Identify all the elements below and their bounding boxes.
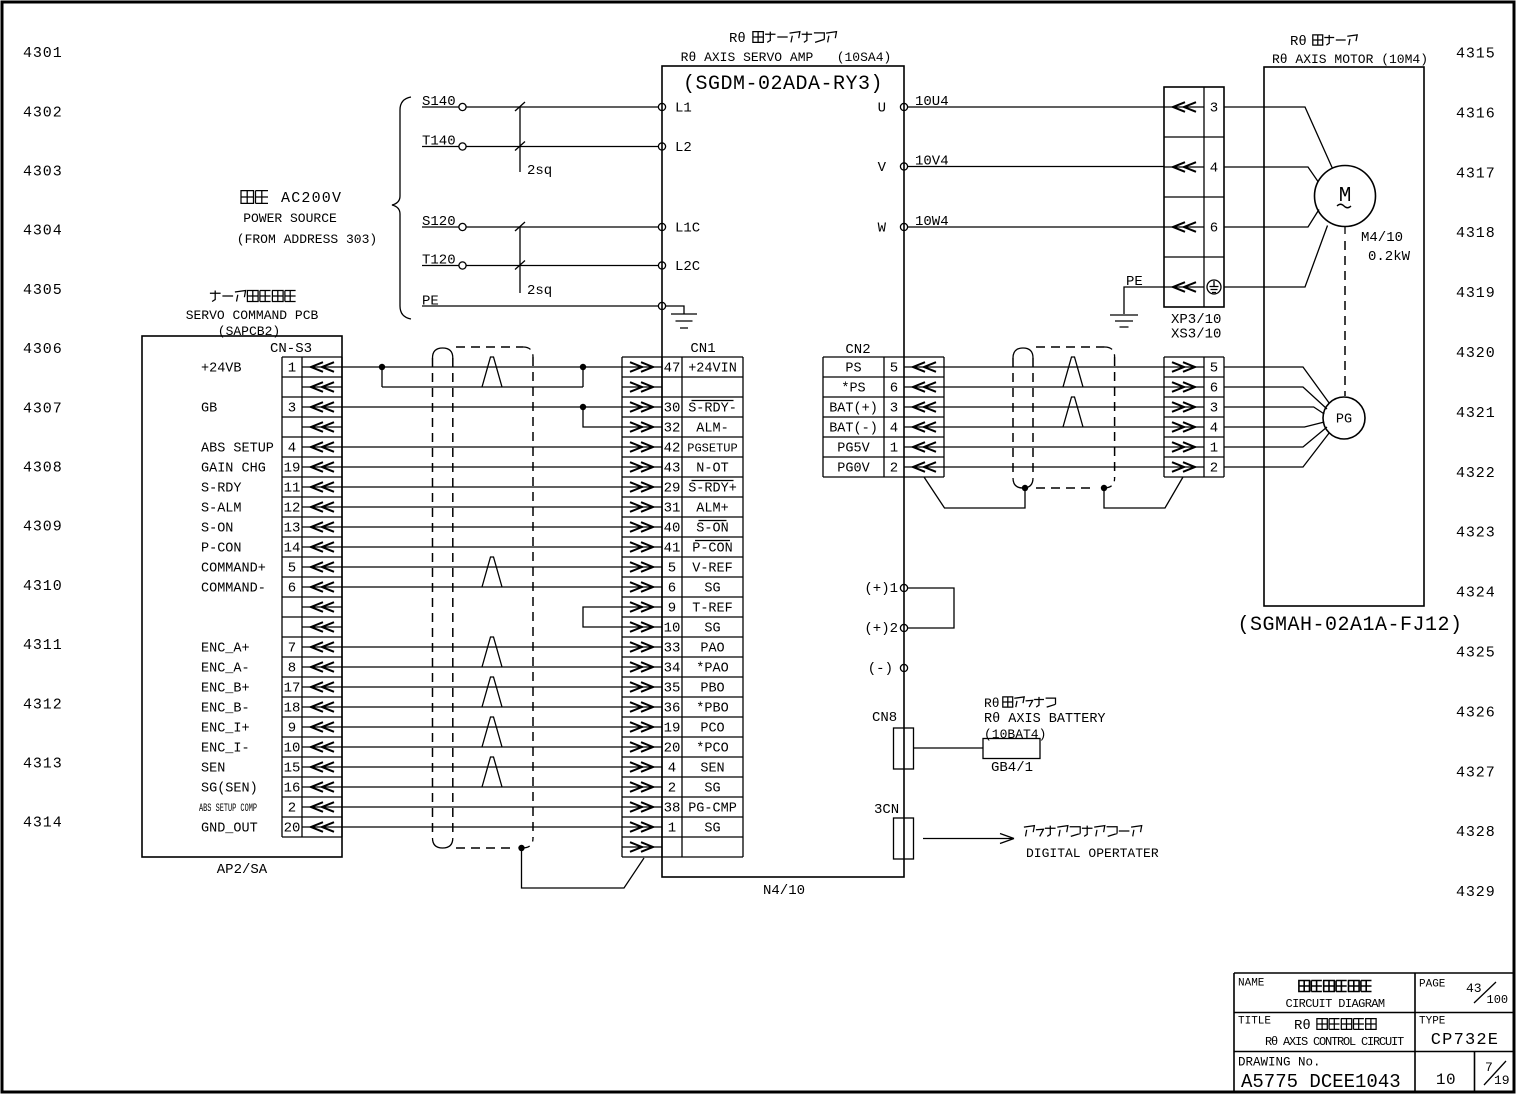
svg-text:DRAWING No.: DRAWING No. [1238, 1056, 1321, 1070]
svg-text:PAGE: PAGE [1419, 979, 1446, 991]
twisted pair symbols [482, 557, 502, 587]
svg-text:2: 2 [890, 461, 898, 477]
svg-text:6: 6 [288, 581, 296, 597]
terminal L1 [658, 103, 665, 110]
svg-text:Rθ: Rθ [1294, 1018, 1311, 1034]
svg-text:ENC_I+: ENC_I+ [201, 722, 250, 737]
svg-text:GAIN CHG: GAIN CHG [201, 462, 266, 477]
svg-text:13: 13 [284, 521, 301, 537]
svg-text:DIGITAL OPERTATER: DIGITAL OPERTATER [1026, 846, 1159, 861]
svg-text:T-REF: T-REF [692, 602, 733, 617]
svg-text:5: 5 [1210, 361, 1218, 377]
svg-text:PGSETUP: PGSETUP [687, 442, 737, 456]
power source label [241, 191, 268, 204]
svg-text:L1C: L1C [675, 221, 700, 237]
svg-text:6: 6 [668, 581, 676, 597]
svg-text:ENC_B-: ENC_B- [201, 702, 250, 717]
svg-text:P-CON: P-CON [692, 542, 733, 557]
svg-text:4315: 4315 [1456, 46, 1496, 63]
svg-text:29: 29 [664, 481, 681, 497]
svg-text:(+)1: (+)1 [864, 581, 898, 597]
svg-text:4304: 4304 [23, 223, 63, 240]
svg-text:43: 43 [664, 461, 681, 477]
svg-text:4316: 4316 [1456, 105, 1496, 122]
svg-text:ALM+: ALM+ [696, 502, 728, 517]
svg-text:ALM-: ALM- [696, 422, 728, 437]
svg-text:4302: 4302 [23, 104, 63, 121]
svg-text:AP2/SA: AP2/SA [217, 862, 268, 878]
svg-text:3: 3 [288, 401, 296, 417]
ground symbol PE [1110, 315, 1138, 327]
svg-text:XS3/10: XS3/10 [1171, 327, 1221, 343]
connector XP3/10 XS3/10 [1164, 87, 1224, 343]
svg-text:Rθ AXIS BATTERY: Rθ AXIS BATTERY [984, 712, 1106, 727]
cable size marks 2sq lower [515, 222, 525, 293]
terminal L2C [658, 262, 665, 269]
svg-text:4306: 4306 [23, 341, 63, 358]
svg-text:4322: 4322 [1456, 465, 1496, 482]
encoder wires CN2-XS3 [944, 366, 1164, 368]
svg-text:CN8: CN8 [872, 710, 897, 726]
svg-text:NAME: NAME [1238, 978, 1265, 990]
shield junction dots [1022, 485, 1028, 491]
svg-text:32: 32 [664, 421, 681, 437]
shield drain junction [518, 845, 524, 851]
svg-text:SEN: SEN [700, 762, 724, 777]
svg-text:35: 35 [664, 681, 681, 697]
svg-text:8: 8 [288, 661, 296, 677]
svg-text:4: 4 [890, 421, 898, 437]
svg-text:2sq: 2sq [527, 163, 552, 179]
svg-text:COMMAND+: COMMAND+ [201, 562, 266, 577]
svg-text:4307: 4307 [23, 400, 63, 417]
svg-text:38: 38 [664, 801, 681, 817]
svg-text:3: 3 [1210, 401, 1218, 417]
svg-text:42: 42 [664, 441, 681, 457]
svg-text:16: 16 [284, 781, 301, 797]
svg-text:AC200V: AC200V [281, 190, 342, 207]
svg-text:4: 4 [1210, 421, 1218, 437]
svg-text:4: 4 [668, 761, 676, 777]
svg-text:6: 6 [890, 381, 898, 397]
svg-text:33: 33 [664, 641, 681, 657]
svg-text:4329: 4329 [1456, 884, 1496, 901]
svg-text:ENC_I-: ENC_I- [201, 742, 250, 757]
svg-text:4313: 4313 [23, 756, 63, 773]
svg-text:1: 1 [288, 361, 296, 377]
svg-text:0.2kW: 0.2kW [1368, 249, 1411, 265]
svg-text:4309: 4309 [23, 519, 63, 536]
svg-text:20: 20 [284, 821, 301, 837]
svg-text:P-CON: P-CON [201, 542, 242, 557]
svg-text:19: 19 [664, 721, 681, 737]
svg-text:BAT(+): BAT(+) [829, 402, 878, 417]
svg-text:Rθ: Rθ [1290, 34, 1307, 50]
svg-text:36: 36 [664, 701, 681, 717]
svg-text:12: 12 [284, 501, 301, 517]
svg-text:SG: SG [704, 822, 720, 837]
terminal PE [658, 302, 665, 309]
svg-text:19: 19 [1494, 1073, 1510, 1088]
svg-text:4327: 4327 [1456, 764, 1496, 781]
svg-text:4301: 4301 [23, 45, 63, 62]
power source brace [392, 97, 411, 319]
svg-text:10: 10 [1436, 1071, 1456, 1089]
svg-text:34: 34 [664, 661, 681, 677]
svg-text:PAO: PAO [700, 642, 724, 657]
svg-text:7: 7 [1485, 1060, 1493, 1075]
svg-text:M4/10: M4/10 [1361, 230, 1403, 246]
svg-text:ENC_B+: ENC_B+ [201, 682, 250, 697]
svg-text:9: 9 [668, 601, 676, 617]
svg-text:PCO: PCO [700, 722, 724, 737]
svg-text:PG: PG [1336, 413, 1352, 428]
svg-text:10: 10 [664, 621, 681, 637]
svg-text:*PAO: *PAO [696, 662, 728, 677]
svg-text:17: 17 [284, 681, 301, 697]
svg-text:*PBO: *PBO [696, 702, 728, 717]
PG circle [1323, 397, 1365, 439]
svg-text:6: 6 [1210, 381, 1218, 397]
svg-text:L2C: L2C [675, 259, 700, 275]
connector XS3 encoder side [1164, 357, 1224, 477]
terminal L2 [658, 143, 665, 150]
svg-text:N-OT: N-OT [696, 462, 728, 477]
svg-text:SG: SG [704, 622, 720, 637]
svg-text:*PS: *PS [841, 382, 865, 397]
svg-text:COMMAND-: COMMAND- [201, 582, 266, 597]
svg-text:5: 5 [890, 361, 898, 377]
svg-text:4317: 4317 [1456, 165, 1496, 182]
svg-text:S-RDY+: S-RDY+ [688, 482, 737, 497]
svg-text:TITLE: TITLE [1238, 1016, 1271, 1028]
cable shield CN-S3/CN1 dashed [433, 358, 453, 838]
svg-text:4303: 4303 [23, 164, 63, 181]
svg-text:L2: L2 [675, 140, 692, 156]
motor M circle [1315, 166, 1376, 227]
svg-text:30: 30 [664, 401, 681, 417]
svg-text:1: 1 [1210, 441, 1218, 457]
shield wires to shells [924, 477, 1183, 508]
dashed shaft line [1344, 227, 1346, 234]
svg-text:L1: L1 [675, 101, 692, 117]
right margin line numbers 4315-4329 [1456, 46, 1496, 902]
jumper (+)1-(+)2 [908, 588, 955, 628]
svg-text:4314: 4314 [23, 815, 63, 832]
svg-text:Rθ AXIS MOTOR (10M4): Rθ AXIS MOTOR (10M4) [1272, 52, 1428, 67]
svg-text:43: 43 [1466, 981, 1482, 996]
svg-text:PG-CMP: PG-CMP [688, 802, 737, 817]
wires XS3 to PG [1224, 367, 1330, 404]
svg-text:4328: 4328 [1456, 824, 1496, 841]
svg-text:4325: 4325 [1456, 645, 1496, 662]
svg-text:19: 19 [284, 461, 301, 477]
svg-text:+24VIN: +24VIN [688, 362, 737, 377]
svg-text:Rθ: Rθ [984, 696, 1000, 711]
svg-text:Rθ: Rθ [729, 31, 746, 47]
svg-text:(-): (-) [868, 661, 893, 677]
svg-text:2: 2 [668, 781, 676, 797]
left margin line numbers 4301-4314 [23, 45, 63, 832]
svg-text:4319: 4319 [1456, 285, 1496, 302]
cable size marks 2sq upper [515, 102, 525, 172]
svg-text:GB4/1: GB4/1 [991, 760, 1033, 776]
svg-text:PE: PE [422, 294, 439, 310]
svg-text:4311: 4311 [23, 637, 63, 654]
terminal L1C [658, 223, 665, 230]
svg-text:BAT(-): BAT(-) [829, 422, 878, 437]
svg-text:4324: 4324 [1456, 585, 1496, 602]
svg-text:*PCO: *PCO [696, 742, 728, 757]
svg-text:S-RDY-: S-RDY- [688, 402, 737, 417]
svg-text:SG(SEN): SG(SEN) [201, 782, 258, 797]
svg-text:PG0V: PG0V [837, 462, 870, 477]
PE pin symbol [1207, 280, 1221, 294]
svg-text:9: 9 [288, 721, 296, 737]
svg-text:V: V [878, 160, 887, 176]
svg-text:S-ON: S-ON [696, 522, 728, 537]
svg-text:1: 1 [890, 441, 898, 457]
svg-text:4320: 4320 [1456, 345, 1496, 362]
svg-text:S-RDY: S-RDY [201, 482, 242, 497]
svg-text:PS: PS [845, 362, 861, 377]
svg-text:Rθ AXIS CONTROL CIRCUIT: Rθ AXIS CONTROL CIRCUIT [1265, 1035, 1404, 1049]
svg-text:S-ALM: S-ALM [201, 502, 242, 517]
svg-text:4326: 4326 [1456, 704, 1496, 721]
svg-text:4308: 4308 [23, 460, 63, 477]
svg-text:11: 11 [284, 481, 301, 497]
svg-text:4323: 4323 [1456, 525, 1496, 542]
connector CN-S3 pin rows [199, 357, 342, 837]
svg-text:4310: 4310 [23, 578, 63, 595]
servo command PCB SAPCB2 [210, 291, 296, 302]
svg-text:(10BAT4): (10BAT4) [984, 727, 1046, 742]
arrow to digital operator [923, 834, 1014, 844]
svg-text:ABS SETUP COMP: ABS SETUP COMP [199, 803, 257, 815]
svg-text:SG: SG [704, 582, 720, 597]
svg-text:2: 2 [288, 801, 296, 817]
svg-text:14: 14 [284, 541, 301, 557]
svg-text:31: 31 [664, 501, 681, 517]
wire +24VB twisted pair loop [342, 367, 622, 387]
svg-text:20: 20 [664, 741, 681, 757]
svg-text:(SGMAH-02A1A-FJ12): (SGMAH-02A1A-FJ12) [1237, 614, 1462, 637]
svg-text:5: 5 [288, 561, 296, 577]
T-REF SG loop [583, 607, 622, 627]
ground inside amp [666, 306, 697, 328]
title block [1234, 973, 1514, 1093]
svg-text:4: 4 [1210, 161, 1218, 177]
svg-text:N4/10: N4/10 [763, 883, 805, 899]
svg-text:SEN: SEN [201, 762, 225, 777]
svg-text:4318: 4318 [1456, 225, 1496, 242]
svg-text:GND_OUT: GND_OUT [201, 822, 258, 837]
svg-text:5: 5 [668, 561, 676, 577]
svg-text:2: 2 [1210, 461, 1218, 477]
svg-text:(FROM ADDRESS 303): (FROM ADDRESS 303) [237, 232, 377, 247]
svg-text:3: 3 [890, 401, 898, 417]
svg-text:ENC_A-: ENC_A- [201, 662, 250, 677]
svg-text:18: 18 [284, 701, 301, 717]
svg-text:ENC_A+: ENC_A+ [201, 642, 250, 657]
svg-text:4305: 4305 [23, 282, 63, 299]
svg-text:CP732E: CP732E [1431, 1031, 1499, 1050]
svg-text:4312: 4312 [23, 696, 63, 713]
svg-text:3: 3 [1210, 101, 1218, 117]
svg-text:GB: GB [201, 402, 217, 417]
wire GB to S-RDY- and ALM- [342, 407, 622, 427]
svg-text:PG5V: PG5V [837, 442, 870, 457]
straight wires [342, 446, 622, 448]
svg-text:(SGDM-02ADA-RY3): (SGDM-02ADA-RY3) [683, 73, 883, 96]
svg-text:15: 15 [284, 761, 301, 777]
svg-text:POWER SOURCE: POWER SOURCE [243, 211, 337, 226]
svg-text:PBO: PBO [700, 682, 724, 697]
motor 10M4 box [1264, 67, 1424, 606]
svg-text:10: 10 [284, 741, 301, 757]
svg-text:100: 100 [1487, 993, 1509, 1007]
svg-text:CIRCUIT DIAGRAM: CIRCUIT DIAGRAM [1285, 997, 1384, 1011]
svg-text:CN2: CN2 [845, 342, 870, 358]
svg-text:4: 4 [288, 441, 296, 457]
svg-text:SERVO COMMAND PCB: SERVO COMMAND PCB [186, 308, 319, 323]
svg-text:4321: 4321 [1456, 405, 1496, 422]
svg-text:Rθ AXIS SERVO AMP (10SA4): Rθ AXIS SERVO AMP (10SA4) [681, 50, 892, 65]
svg-text:TYPE: TYPE [1419, 1016, 1446, 1028]
svg-text:2sq: 2sq [527, 283, 552, 299]
svg-text:A5775 DCEE1043: A5775 DCEE1043 [1241, 1071, 1401, 1093]
svg-text:+24VB: +24VB [201, 362, 242, 377]
cable shield CN2/XS3 dashed [1013, 358, 1033, 478]
svg-text:CN-S3: CN-S3 [270, 341, 312, 357]
svg-text:3CN: 3CN [874, 802, 899, 818]
servo amp 10SA4 box [662, 66, 904, 877]
svg-text:1: 1 [668, 821, 676, 837]
svg-text:41: 41 [664, 541, 681, 557]
svg-text:W: W [878, 221, 887, 237]
svg-text:CN1: CN1 [690, 341, 715, 357]
svg-text:40: 40 [664, 521, 681, 537]
svg-text:47: 47 [664, 361, 681, 377]
wires into motor [1224, 107, 1333, 287]
svg-text:ABS SETUP: ABS SETUP [201, 442, 274, 457]
svg-text:V-REF: V-REF [692, 562, 733, 577]
svg-text:(+)2: (+)2 [864, 621, 898, 637]
svg-text:SG: SG [704, 782, 720, 797]
svg-text:S-ON: S-ON [201, 522, 233, 537]
svg-text:7: 7 [288, 641, 296, 657]
svg-text:6: 6 [1210, 221, 1218, 237]
svg-text:U: U [878, 101, 886, 117]
